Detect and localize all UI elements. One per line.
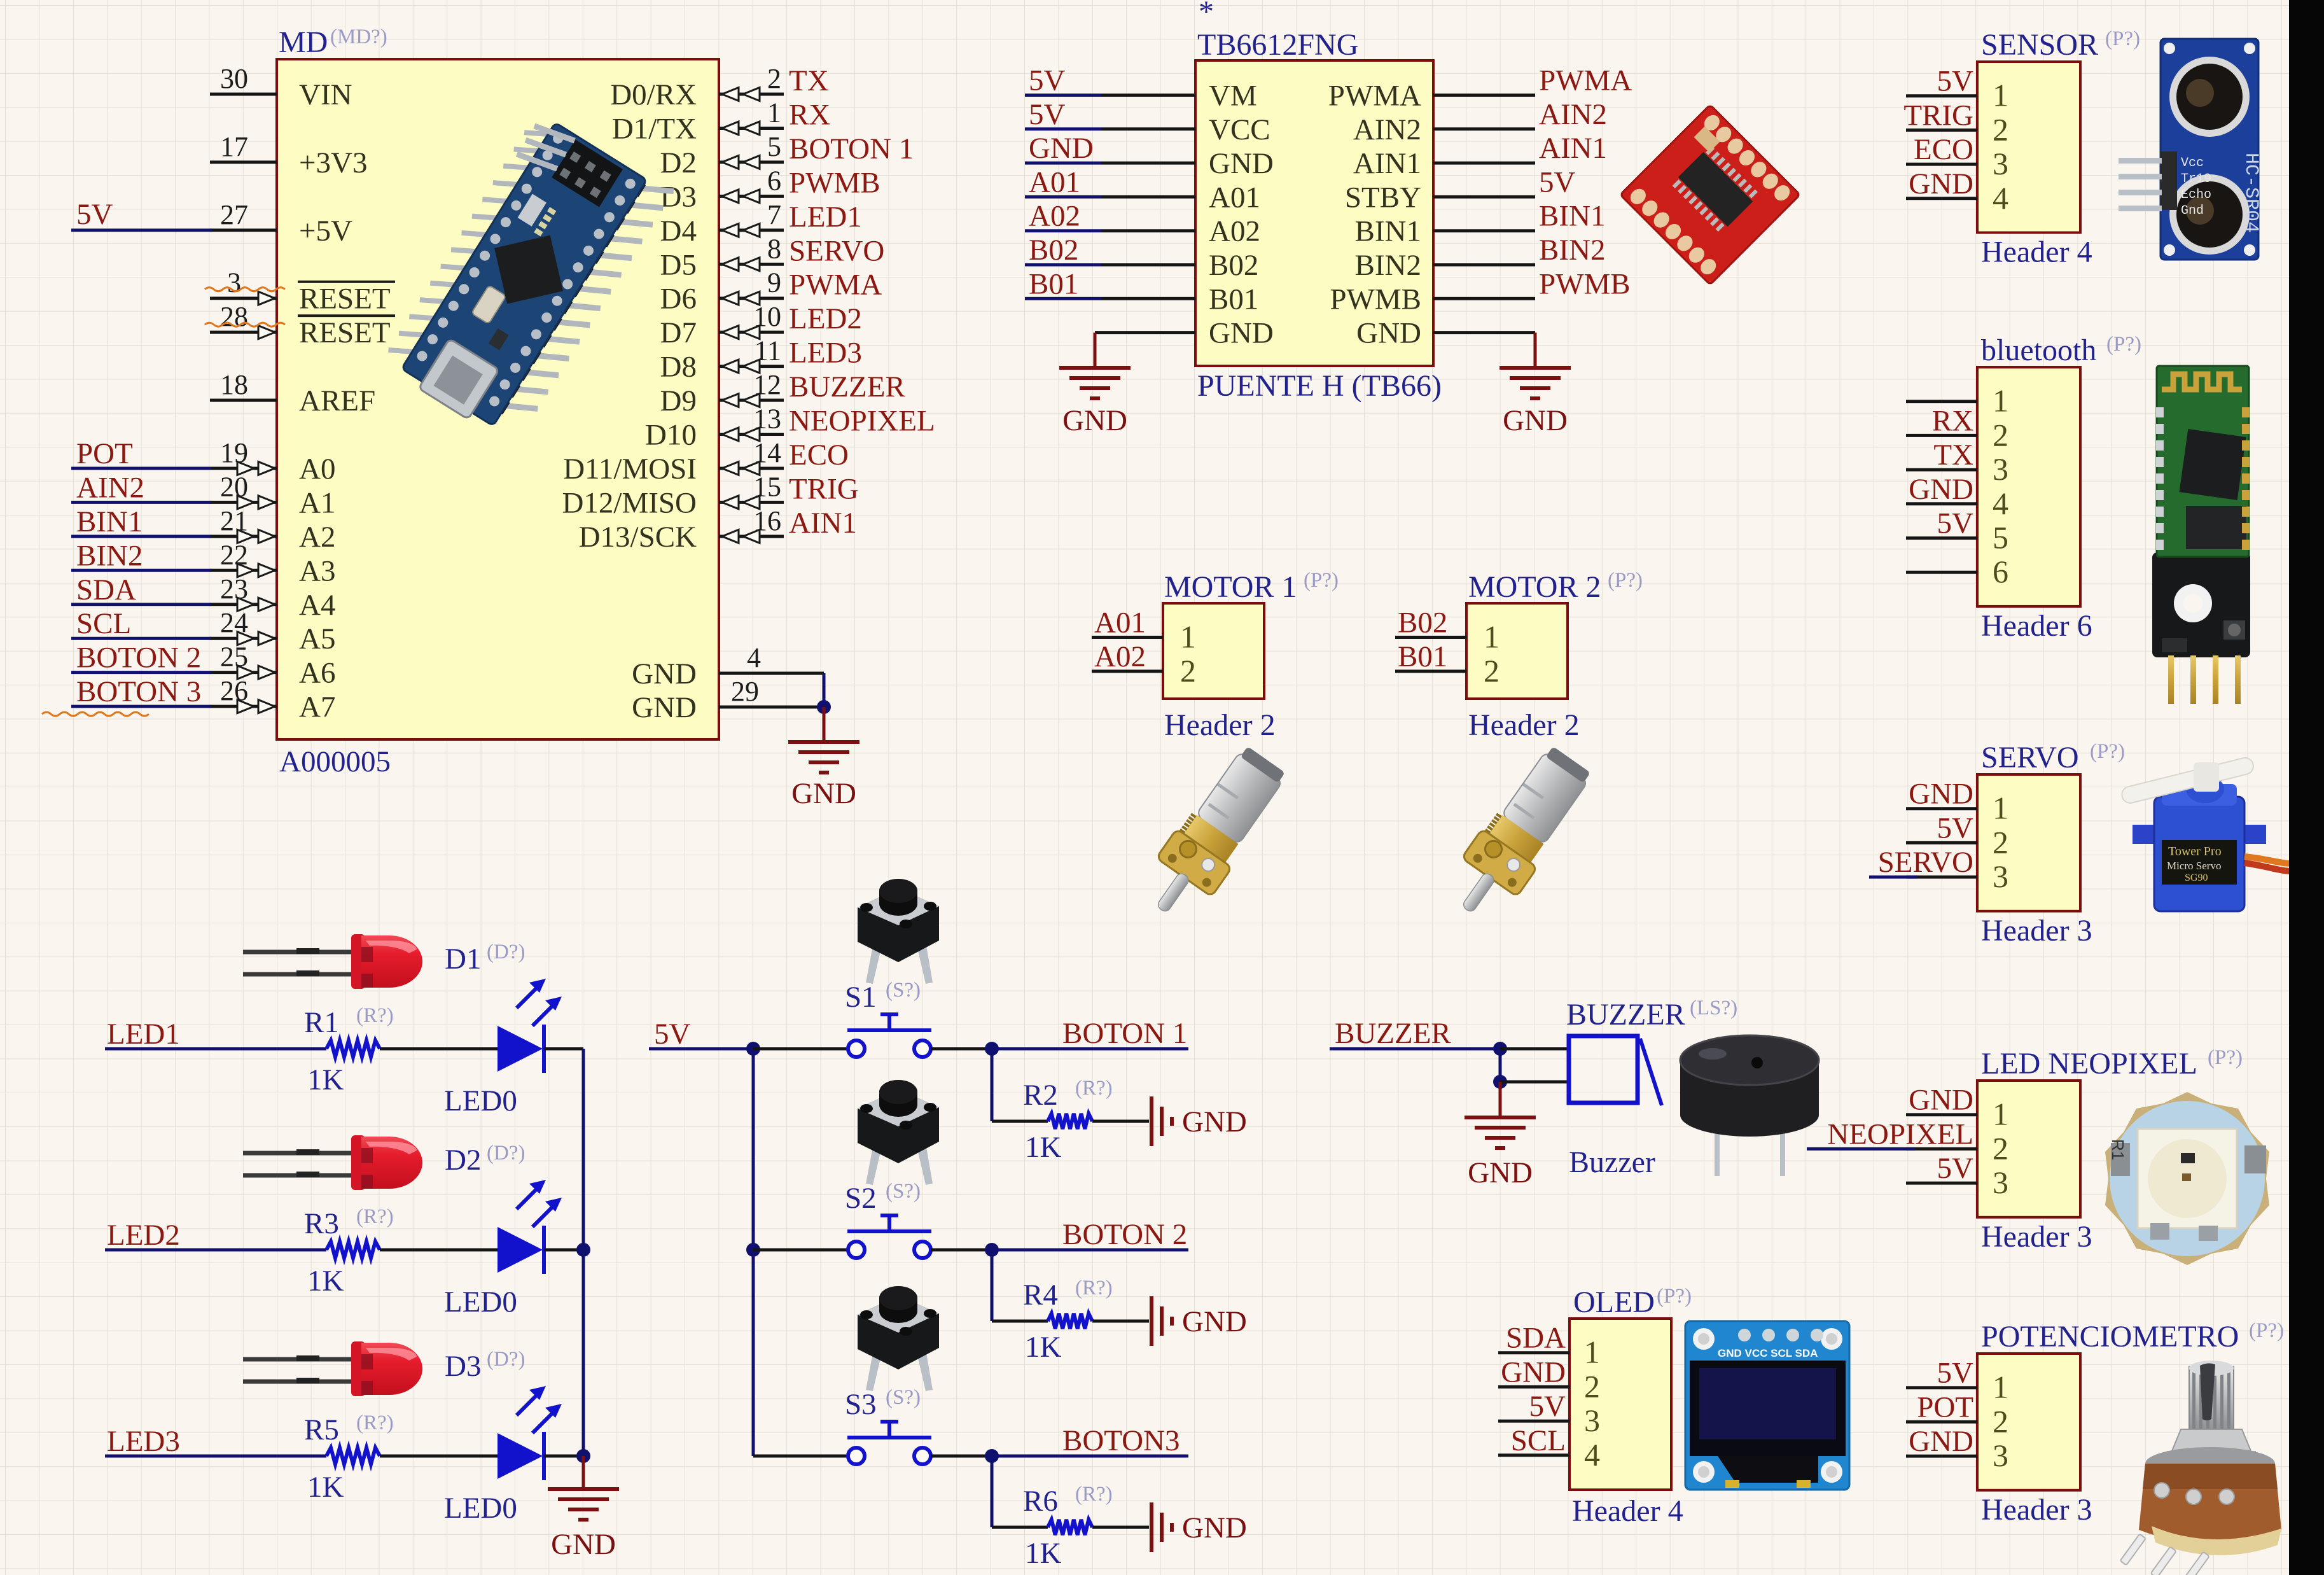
svg-text:Tower Pro: Tower Pro [2168, 844, 2222, 858]
TB6612 pin row GND/AIN1 [1025, 132, 1607, 180]
svg-text:TRIG: TRIG [1903, 99, 1973, 132]
svg-text:*: * [1199, 0, 1214, 29]
svg-text:GND: GND [1909, 473, 1973, 506]
svg-text:GND: GND [1909, 1084, 1973, 1117]
svg-text:Header 3: Header 3 [1981, 1493, 2092, 1527]
net label LED3 [105, 1425, 326, 1458]
svg-text:BOTON 2: BOTON 2 [76, 641, 201, 675]
SERVO pin 2 net 5V [1906, 811, 2008, 860]
MD pin 26 A7 (left) [210, 675, 335, 724]
connector MOTOR 2 body [1466, 603, 1568, 699]
svg-text:VCC: VCC [1209, 113, 1270, 146]
svg-text:Header 4: Header 4 [1572, 1494, 1683, 1528]
photo potentiometer [2120, 1361, 2281, 1575]
bluetooth pin 4 net GND [1906, 473, 2008, 521]
svg-text:VIN: VIN [299, 78, 352, 111]
svg-text:D13/SCK: D13/SCK [579, 521, 697, 554]
svg-text:A01: A01 [1209, 181, 1260, 214]
svg-text:GND: GND [632, 691, 697, 724]
svg-text:1: 1 [767, 97, 781, 128]
ground GND buzzer [1465, 1082, 1536, 1189]
svg-text:D8: D8 [660, 351, 697, 384]
svg-text:(D?): (D?) [487, 941, 525, 963]
svg-text:GND: GND [1501, 1355, 1566, 1389]
svg-text:3: 3 [1993, 1438, 2008, 1473]
SENSOR pin 1 net 5V [1906, 65, 2008, 113]
OLED Header 4 label [1572, 1494, 1683, 1528]
designator D2 [445, 1142, 525, 1177]
svg-text:Header 4: Header 4 [1981, 235, 2092, 269]
junction buzzer top [1493, 1042, 1507, 1056]
connector SENSOR title [1981, 27, 2140, 62]
TB6612 pin row A01/STBY [1025, 165, 1576, 214]
wire 5V bus vertical [752, 1049, 755, 1456]
svg-text:1K: 1K [1025, 1331, 1062, 1364]
MD pin 15 D12/MISO (right) net TRIG [562, 471, 858, 519]
svg-text:A6: A6 [299, 657, 335, 690]
POTENCIOMETRO pin 3 net GND [1906, 1425, 2008, 1473]
svg-text:BIN1: BIN1 [1355, 215, 1421, 248]
svg-text:D1: D1 [445, 942, 481, 976]
svg-text:Vcc: Vcc [2181, 156, 2204, 171]
svg-text:D3: D3 [445, 1350, 481, 1383]
connector bluetooth body [1977, 367, 2080, 606]
svg-text:(R?): (R?) [356, 1411, 394, 1434]
bluetooth pin 1 [1906, 383, 2008, 419]
svg-text:A02: A02 [1209, 215, 1260, 248]
switch S1 push button [845, 979, 931, 1057]
svg-text:Tr19: Tr19 [2181, 172, 2211, 186]
svg-text:GND: GND [551, 1528, 616, 1561]
switch S3 push button [845, 1386, 931, 1464]
svg-text:D12/MISO: D12/MISO [562, 486, 697, 519]
svg-text:GND: GND [632, 657, 697, 690]
svg-text:LED2: LED2 [789, 302, 862, 335]
svg-text:LED1: LED1 [107, 1018, 180, 1051]
svg-text:Header 2: Header 2 [1468, 708, 1580, 742]
svg-text:S2: S2 [845, 1182, 877, 1215]
svg-text:LED3: LED3 [789, 337, 862, 370]
svg-text:3: 3 [1993, 451, 2008, 487]
wire switch S3 to junction [931, 1455, 992, 1458]
svg-text:5V: 5V [1029, 98, 1066, 131]
svg-text:(P?): (P?) [2105, 27, 2140, 50]
svg-text:LED0: LED0 [444, 1084, 517, 1117]
svg-text:(MD?): (MD?) [330, 25, 387, 48]
svg-text:(D?): (D?) [487, 1348, 525, 1371]
photo red LED D2 [243, 1135, 422, 1190]
connector SENSOR body [1977, 62, 2080, 233]
MD pin 3 RESET (left) [210, 267, 395, 316]
svg-text:GND: GND [1503, 404, 1568, 437]
ground GND LED bus [548, 1456, 619, 1561]
svg-text:AREF: AREF [299, 384, 375, 417]
svg-text:A4: A4 [299, 589, 335, 622]
IC MD (Arduino Nano) designator [279, 25, 387, 59]
svg-text:(R?): (R?) [356, 1205, 394, 1228]
svg-text:2: 2 [1993, 1130, 2008, 1166]
net 5V to MD +5V [71, 198, 212, 231]
MD pin 30 VIN (left) [210, 63, 352, 111]
svg-text:BOTON 1: BOTON 1 [789, 132, 914, 165]
svg-text:8: 8 [767, 233, 781, 264]
MD pin 29 GND [632, 676, 824, 724]
svg-text:SCL: SCL [76, 607, 131, 640]
svg-text:D11/MOSI: D11/MOSI [563, 452, 697, 486]
svg-text:RX: RX [1932, 404, 1973, 437]
svg-text:Header 3: Header 3 [1981, 1220, 2092, 1254]
svg-text:1K: 1K [307, 1063, 344, 1096]
resistor R6 1K [1023, 1483, 1113, 1570]
svg-text:2: 2 [1993, 1403, 2008, 1439]
IC TB6612FNG title [1197, 0, 1358, 62]
svg-text:LED2: LED2 [107, 1219, 180, 1252]
MD pin 22 A3 (left) [210, 539, 335, 587]
MD pin 10 D7 (right) net LED2 [660, 301, 862, 349]
MOTOR 1 Header 2 label [1164, 708, 1276, 742]
connector SERVO body [1977, 774, 2080, 911]
svg-text:B01: B01 [1209, 283, 1258, 316]
svg-text:bluetooth: bluetooth [1981, 333, 2096, 367]
wire buzzer vertical [1499, 1049, 1502, 1082]
ground GND after R4 [1152, 1296, 1247, 1346]
TB6612 subtitle PUENTE H [1197, 369, 1442, 403]
bluetooth pin 6 [1906, 554, 2008, 589]
svg-text:(S?): (S?) [886, 979, 921, 1002]
svg-text:1: 1 [1993, 78, 2008, 113]
wire R4 to ground [1092, 1320, 1149, 1323]
MD pin 17 +3V3 (left) [210, 131, 367, 179]
MD pin 28 RESET (left) [210, 301, 395, 349]
wire to resistor R2 [992, 1049, 1048, 1121]
svg-text:R5: R5 [304, 1413, 339, 1446]
MD pin 14 D11/MOSI (right) net ECO [563, 437, 849, 486]
svg-text:1K: 1K [1025, 1537, 1062, 1570]
wire buzzer pin1 [1500, 1047, 1569, 1051]
wire 5V to switch S2 [753, 1249, 848, 1252]
svg-text:GND: GND [1209, 317, 1274, 350]
MD pin 1 D1/TX (right) net RX [612, 97, 831, 145]
photo HC-SR04 ultrasonic sensor [2119, 39, 2262, 260]
OLED pin 1 net SDA [1498, 1322, 1600, 1370]
svg-text:GND: GND [1468, 1156, 1533, 1189]
svg-text:TB6612FNG: TB6612FNG [1197, 28, 1358, 62]
POTENCIOMETRO pin 2 net POT [1906, 1390, 2008, 1439]
TB6612 pin row VCC/AIN2 [1025, 98, 1607, 146]
svg-text:Buzzer: Buzzer [1569, 1145, 1655, 1179]
wire switch S2 to junction [931, 1249, 992, 1252]
svg-text:SENSOR: SENSOR [1981, 28, 2098, 62]
SERVO Header 3 label [1981, 914, 2092, 948]
svg-text:5: 5 [767, 131, 781, 162]
svg-text:AIN1: AIN1 [1353, 147, 1421, 180]
svg-text:SCL: SCL [1511, 1424, 1566, 1457]
svg-text:OLED: OLED [1573, 1285, 1655, 1319]
svg-text:BIN2: BIN2 [1355, 249, 1421, 282]
svg-text:RESET: RESET [299, 283, 391, 316]
MD pin 7 D4 (right) net LED1 [660, 199, 862, 248]
MD pin 19 A0 (left) [210, 437, 335, 486]
error squiggle pin 28 [205, 323, 285, 326]
MOTOR 2 pin 1 net B02 [1395, 606, 1499, 654]
OLED pin 2 net GND [1498, 1355, 1600, 1404]
svg-text:1: 1 [1993, 790, 2008, 826]
svg-text:1: 1 [1484, 619, 1499, 654]
resistor R3 1K [304, 1205, 394, 1298]
MD pin 6 D3 (right) net PWMB [660, 165, 880, 213]
connector bluetooth title [1981, 333, 2141, 367]
svg-text:BOTON3: BOTON3 [1062, 1424, 1180, 1457]
ground GND left of TB6612 [1059, 333, 1131, 437]
svg-text:GND: GND [1209, 147, 1274, 180]
junction BOTON 1 [985, 1042, 999, 1056]
SENSOR Header 4 label [1981, 235, 2092, 269]
LED NEOPIXEL pin 2 net NEOPIXEL [1827, 1117, 2008, 1166]
svg-text:GND: GND [1182, 1105, 1247, 1138]
svg-text:30: 30 [220, 63, 248, 94]
TB6612 pin row B01/PWMB [1025, 267, 1631, 316]
bluetooth Header 6 label [1981, 609, 2092, 643]
TB6612 pin row GND/GND [1209, 317, 1421, 350]
svg-text:R1: R1 [304, 1006, 339, 1039]
photo TB6612FNG breakout board [1620, 105, 1800, 285]
svg-text:(R?): (R?) [1075, 1483, 1113, 1506]
MD pin 12 D9 (right) net BUZZER [660, 369, 906, 417]
wire net NEOPIXEL [1807, 1147, 1915, 1151]
svg-text:2: 2 [1484, 653, 1499, 689]
svg-text:Micro Servo: Micro Servo [2167, 860, 2221, 872]
svg-text:5V: 5V [1539, 165, 1576, 199]
wire 5V to switch S3 [753, 1455, 848, 1458]
MD pin 24 A5 (left) [210, 607, 335, 655]
svg-text:BOTON 2: BOTON 2 [1062, 1218, 1187, 1251]
SENSOR pin 3 net ECO [1906, 133, 2008, 181]
connector OLED title [1573, 1285, 1692, 1319]
svg-text:BOTON 3: BOTON 3 [76, 675, 201, 708]
wire 5V to switch S1 [753, 1047, 848, 1051]
svg-text:6: 6 [767, 165, 781, 196]
svg-text:4: 4 [1584, 1437, 1600, 1473]
svg-text:29: 29 [731, 676, 759, 707]
svg-text:NEOPIXEL: NEOPIXEL [789, 405, 935, 438]
buzzer designator BUZZER [1566, 997, 1737, 1032]
svg-text:5V: 5V [76, 198, 113, 231]
wire TB6612 left GND pin [1095, 331, 1195, 334]
switch S2 push button [845, 1180, 931, 1258]
MOTOR 2 pin 2 net B01 [1395, 640, 1499, 689]
svg-text:TX: TX [789, 64, 829, 97]
svg-text:POTENCIOMETRO: POTENCIOMETRO [1981, 1320, 2239, 1354]
IC MD body [277, 59, 719, 739]
svg-text:A01: A01 [1094, 606, 1146, 639]
svg-text:28: 28 [220, 301, 248, 332]
svg-text:(S?): (S?) [886, 1180, 921, 1203]
svg-text:R3: R3 [304, 1207, 339, 1240]
photo SG90 micro servo [2120, 756, 2298, 911]
net label LED1 [105, 1018, 326, 1051]
net label BUZZER [1330, 1017, 1500, 1050]
svg-text:D10: D10 [645, 419, 697, 452]
svg-text:S3: S3 [845, 1388, 877, 1421]
svg-text:LED0: LED0 [444, 1285, 517, 1319]
error squiggle BOTON 3 [42, 712, 149, 716]
svg-text:LED1: LED1 [789, 200, 862, 234]
svg-text:R4: R4 [1023, 1278, 1058, 1312]
photo buzzer [1680, 1035, 1819, 1176]
svg-text:A7: A7 [299, 690, 335, 724]
ground GND after R6 [1152, 1502, 1247, 1552]
svg-text:2: 2 [1993, 417, 2008, 452]
wire buzzer pin2 [1500, 1081, 1569, 1084]
svg-text:A000005: A000005 [279, 745, 391, 778]
svg-text:STBY: STBY [1345, 181, 1421, 214]
photo micro gear motor 1 [1134, 740, 1294, 929]
IC TB6612FNG body [1195, 60, 1433, 366]
MOTOR 1 pin 1 net A01 [1092, 606, 1196, 654]
svg-text:A5: A5 [299, 622, 335, 655]
svg-text:(R?): (R?) [1075, 1277, 1113, 1299]
svg-text:(S?): (S?) [886, 1386, 921, 1409]
designator D3 [445, 1348, 525, 1383]
svg-text:D5: D5 [660, 248, 697, 281]
svg-text:5: 5 [1993, 520, 2008, 556]
photo tactile button S1 [858, 879, 939, 984]
svg-text:D9: D9 [660, 384, 697, 417]
connector MOTOR 1 title [1164, 569, 1339, 604]
svg-text:27: 27 [220, 199, 248, 230]
SERVO pin 3 net SERVO [1878, 846, 2008, 894]
wire/net SCL to MD [71, 607, 211, 640]
svg-text:+3V3: +3V3 [299, 146, 367, 179]
svg-text:GND: GND [1029, 132, 1094, 165]
photo tactile button S2 [858, 1080, 939, 1185]
net label BOTON3 [992, 1424, 1188, 1457]
svg-text:(D?): (D?) [487, 1142, 525, 1165]
svg-text:AIN1: AIN1 [1539, 132, 1607, 165]
MD pin 8 D5 (right) net SERVO [660, 233, 885, 281]
wire/net BIN1 to MD [71, 505, 211, 538]
bluetooth pin 5 net 5V [1906, 507, 2008, 556]
connector SERVO title [1981, 740, 2125, 774]
svg-text:4: 4 [1993, 486, 2008, 521]
svg-text:2: 2 [1993, 111, 2008, 147]
svg-text:PWMB: PWMB [1330, 283, 1421, 316]
POTENCIOMETRO Header 3 label [1981, 1493, 2092, 1527]
LED symbol LED0 row D2 [444, 1180, 562, 1319]
junction 5V bus row S1 [746, 1042, 760, 1056]
svg-text:D2: D2 [445, 1144, 481, 1177]
svg-text:MOTOR 2: MOTOR 2 [1468, 570, 1601, 604]
svg-text:4: 4 [747, 642, 761, 673]
error squiggle pin 3 [205, 288, 285, 291]
svg-text:R1: R1 [2108, 1139, 2127, 1160]
photo Arduino Nano module [380, 108, 674, 447]
svg-text:1: 1 [1993, 1369, 2008, 1405]
svg-text:SDA: SDA [1506, 1322, 1566, 1355]
svg-text:A3: A3 [299, 554, 335, 587]
TB6612 pin row B02/BIN2 [1025, 234, 1605, 282]
photo micro gear motor 2 [1439, 740, 1599, 929]
photo tactile button S3 [858, 1286, 939, 1391]
wire R3 to LED [380, 1249, 498, 1252]
svg-text:BUZZER: BUZZER [1566, 998, 1685, 1032]
svg-text:(P?): (P?) [1657, 1285, 1692, 1308]
svg-text:(R?): (R?) [356, 1004, 394, 1027]
svg-text:SDA: SDA [76, 573, 136, 606]
svg-text:5V: 5V [1937, 1152, 1974, 1185]
svg-text:A02: A02 [1094, 640, 1146, 673]
svg-text:Header 3: Header 3 [1981, 914, 2092, 948]
svg-text:POT: POT [76, 437, 133, 470]
buzzer LS symbol [1569, 1036, 1662, 1179]
photo red LED D1 [243, 934, 422, 989]
wire/net BIN2 to MD [71, 539, 211, 572]
svg-text:BIN1: BIN1 [1539, 200, 1605, 233]
svg-text:(R?): (R?) [1075, 1077, 1113, 1100]
svg-text:A2: A2 [299, 521, 335, 554]
junction BOTON3 [985, 1449, 999, 1463]
svg-text:3: 3 [1993, 146, 2008, 181]
svg-text:VM: VM [1209, 80, 1257, 113]
wire/net SDA to MD [71, 573, 211, 606]
connector LED NEOPIXEL title [1981, 1046, 2243, 1081]
resistor R5 1K [304, 1411, 394, 1504]
svg-text:HC-SR04: HC-SR04 [2240, 153, 2262, 233]
resistor R4 1K [1023, 1277, 1113, 1364]
MD pin 25 A6 (left) [210, 641, 335, 690]
svg-text:B02: B02 [1398, 606, 1447, 639]
svg-text:SG90: SG90 [2185, 872, 2208, 883]
MD pin 13 D10 (right) net NEOPIXEL [645, 403, 935, 452]
svg-text:5V: 5V [1937, 65, 1974, 98]
svg-text:5V: 5V [1029, 64, 1066, 97]
photo neopixel LED board [2105, 1092, 2269, 1265]
svg-text:(P?): (P?) [2106, 333, 2141, 356]
svg-text:17: 17 [220, 131, 248, 162]
svg-text:A0: A0 [299, 452, 335, 486]
svg-text:(P?): (P?) [2090, 740, 2125, 763]
svg-text:7: 7 [767, 199, 781, 230]
svg-text:A01: A01 [1029, 165, 1080, 199]
MD part number A000005 [279, 745, 391, 778]
svg-text:GND: GND [791, 777, 856, 810]
svg-text:(P?): (P?) [2249, 1319, 2284, 1342]
MD pin 4 GND [632, 642, 824, 690]
svg-text:5V: 5V [1937, 1357, 1974, 1390]
svg-text:2: 2 [1993, 824, 2008, 860]
MD pin 16 D13/SCK (right) net AIN1 [579, 505, 857, 554]
svg-text:SERVO: SERVO [1878, 846, 1973, 879]
svg-text:6: 6 [1993, 554, 2008, 589]
MOTOR 1 pin 2 net A02 [1092, 640, 1196, 689]
MOTOR 2 Header 2 label [1468, 708, 1580, 742]
svg-text:GND: GND [1909, 778, 1973, 811]
svg-text:D0/RX: D0/RX [610, 78, 697, 111]
POTENCIOMETRO pin 1 net 5V [1906, 1357, 2008, 1405]
svg-text:5V: 5V [1937, 811, 1974, 844]
svg-text:A02: A02 [1029, 200, 1080, 233]
TB6612 pin row VM/PWMA [1025, 64, 1632, 113]
svg-text:GND: GND [1182, 1305, 1247, 1338]
svg-text:GND: GND [1909, 167, 1973, 200]
svg-text:D1/TX: D1/TX [612, 112, 697, 145]
svg-text:1K: 1K [1025, 1131, 1062, 1164]
net label 5V (buttons) [649, 1018, 753, 1051]
wire switch S1 to junction [931, 1047, 992, 1051]
svg-text:BUZZER: BUZZER [1335, 1017, 1451, 1050]
junction 5V bus row S2 [746, 1243, 760, 1257]
svg-text:BIN1: BIN1 [76, 505, 143, 538]
